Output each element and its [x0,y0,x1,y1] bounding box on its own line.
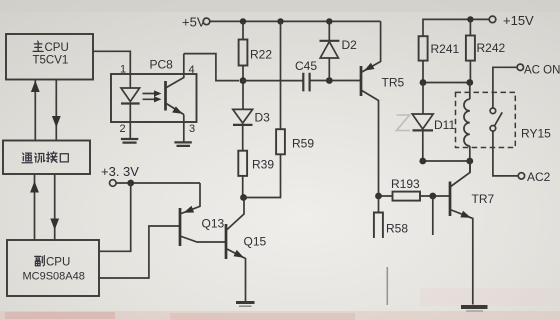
capacitor C45 [303,73,309,92]
transistor TR5 bar [360,66,363,96]
relay switch contact upper [490,108,496,114]
ground pin3 [174,142,191,146]
PC8 pin3 lead [183,115,185,143]
PC8 LED diode [121,88,140,102]
svg-text:RY15: RY15 [521,127,551,141]
svg-text:+5V: +5V [182,15,206,30]
ground pin2 [121,139,138,143]
TR5 emitter to +5V rail [361,21,381,72]
junction node D (R39/R59/Q15 collector) [240,194,247,201]
wire 主CPU to PC8 pin1 [93,51,130,74]
junction node H2 [466,158,473,165]
svg-text:T5CV1: T5CV1 [33,55,69,67]
svg-text:TR7: TR7 [472,192,495,206]
block 副CPU U-sub [7,240,99,296]
block 主CPU U-main [6,34,93,80]
transistor Q13 bar [179,208,182,246]
wire bus 主CPU to 通讯接口 down arrow [55,80,57,141]
wire +3.3V rail [116,182,200,184]
svg-text:R58: R58 [386,222,408,236]
wire bus 通讯接口 to 副CPU down arrow [54,174,56,240]
Q15 emitter lead [226,249,246,302]
wire TR7 collector to relay [469,161,471,173]
口 glyph [60,154,68,162]
diode D3 [233,109,253,123]
junction rail-R22 [240,18,246,24]
svg-text:R22: R22 [250,48,272,62]
junction +3.3V [127,180,134,187]
Q13 collector to Q15 base [180,236,226,242]
PC8 phototransistor emitter [166,103,184,115]
通 glyph [22,153,32,163]
wire stub below node F [432,196,434,235]
wire D3 to R39 [242,125,244,151]
junction node F (R193/TR7 base) [429,193,436,200]
PC8 phototransistor collector [166,54,184,88]
resistor R242 [469,19,471,35]
svg-text:R39: R39 [252,158,274,172]
TR7 emitter lead [450,210,473,305]
TR7 collector lead [450,161,470,187]
Q15 collector lead [226,198,244,231]
wire R59 top to +5V rail [280,21,282,129]
AC2 terminal [518,173,524,179]
block 通讯接口 comms interface [3,141,90,175]
relay switch contact lower [490,126,496,132]
wire R242 bottom [469,61,471,83]
wire node B to C45 [243,80,303,82]
resistor R59 [276,129,285,154]
svg-text:Q15: Q15 [244,235,267,249]
optocoupler PC8 box [111,74,197,122]
relay coil [469,83,471,100]
svg-text:R59: R59 [292,137,314,151]
wire 副CPU to Q13 base [99,226,180,278]
svg-text:R242: R242 [477,41,506,55]
transistor Q15 bar [225,224,228,259]
wire R39 to node D [242,176,244,198]
diode D11 [422,83,424,115]
TR5 collector lead [361,90,379,196]
diode D2 [328,21,330,80]
resistor R22 [242,21,244,80]
resistor R39 [238,151,247,176]
AC ON terminal [517,64,523,70]
wire switch to AC2 [493,131,518,176]
junction node G1 [420,79,427,86]
resistor R241 [419,36,428,60]
faded R58 lower lead [386,267,388,305]
PC8 phototransistor bar [164,81,167,111]
ground Q15 [236,301,255,304]
PC8 light arrows [143,94,157,100]
wire C45 to node C [310,80,361,82]
svg-text:PC8: PC8 [150,58,174,72]
junction rail-D2 [326,18,332,24]
svg-text:+3. 3V: +3. 3V [101,164,139,179]
wire +5V rail [210,20,381,22]
svg-text:2: 2 [120,123,126,135]
接 glyph [47,152,57,163]
junction node G2 [466,79,473,86]
wire +15V rail [423,19,489,36]
svg-text:TR5: TR5 [382,76,405,90]
svg-text:3: 3 [189,123,195,135]
svg-text:AC2: AC2 [527,170,551,184]
wire R59 bottom to node D [244,154,281,197]
PC8 LED anode lead [129,74,131,88]
PC8 LED cathode lead pin2 [129,104,131,140]
svg-text:Q13: Q13 [202,217,225,231]
wire PC8 pin4 to R22 bottom node [184,54,239,81]
relay RY15 dashed box [456,92,516,147]
+15V terminal [489,16,496,23]
junction rail-R242 [467,16,473,22]
svg-text:R193: R193 [391,177,420,191]
wire bus 通讯接口 to 副CPU up arrow [34,175,36,240]
relay switch blade [494,112,502,126]
svg-text:R241: R241 [431,42,460,56]
junction rail-R59 [277,18,283,24]
svg-text:CPU: CPU [45,42,69,54]
svg-text:D2: D2 [342,38,358,52]
svg-text:C45: C45 [295,59,317,73]
wire bus 主CPU to 通讯接口 up arrow [34,81,36,141]
主CPU label 主 glyph [33,41,43,51]
svg-text:D3: D3 [255,111,271,125]
wire node H row [423,160,470,162]
svg-text:4: 4 [189,64,195,76]
wire node G row [423,82,470,84]
junction node B (R22/pin4/C45/D3) [240,77,247,84]
svg-text:+15V: +15V [503,13,534,28]
+3.3V terminal [110,180,117,187]
junction node H1 [419,158,426,165]
svg-text:1: 1 [120,64,126,76]
transistor TR7 bar [449,182,452,217]
junction node C (C45/D2/TR5 base) [326,77,333,84]
svg-text:MC9S08A48: MC9S08A48 [23,271,85,283]
ground TR7 [461,305,488,309]
scan artifact Z mark [397,115,411,131]
wire R241 bottom [422,61,424,83]
resistor R58 [378,196,380,213]
+5V terminal [203,18,210,25]
svg-text:D11: D11 [434,118,455,132]
resistor R193 [379,195,451,197]
wire +3.3V down to 副CPU [99,183,131,251]
svg-text:CPU: CPU [46,257,70,269]
svg-text:AC ON: AC ON [524,65,560,77]
wire D11 bottom [422,130,424,161]
junction node E (TR5 collector/R193/R58) [375,193,382,200]
wire node B to D3 [242,81,244,110]
Q13 emitter lead [180,183,200,214]
副 glyph [35,256,45,266]
讯 glyph [35,153,45,162]
wire switch to AC ON [493,67,517,108]
